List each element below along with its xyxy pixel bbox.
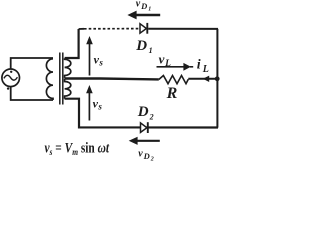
arrow vD1 (points left) <box>127 11 160 20</box>
wire: top rail dashed segment to D1 <box>79 28 84 30</box>
resistor R <box>159 76 189 84</box>
wire: top rail right of D1 <box>148 28 218 30</box>
transformer secondary lower coil <box>65 79 71 99</box>
wire: resistor to right rail <box>188 78 217 80</box>
transformer secondary upper coil <box>65 58 71 78</box>
arrow vL (points right) <box>157 63 194 71</box>
arrow vs lower (points up) <box>86 85 93 121</box>
current arrowhead iL on wire <box>203 76 209 82</box>
arrow vs upper (points up) <box>86 36 93 76</box>
arrow vD2 (points left) <box>129 137 160 145</box>
formula vs = Vm sin wt <box>45 139 110 157</box>
wire: primary loop bottom <box>11 87 53 100</box>
junction node dot <box>215 76 220 81</box>
transformer core <box>59 53 61 105</box>
wire: secondary top terminal to top rail <box>65 29 79 58</box>
ac source V <box>2 69 20 90</box>
wire: primary loop top <box>11 58 53 69</box>
wire: bottom rail <box>65 99 218 128</box>
wire: center tap to resistor <box>65 77 159 80</box>
diode D1 <box>140 23 147 34</box>
transformer primary coil <box>46 59 53 100</box>
wire: right rail <box>216 29 218 128</box>
diode D2 <box>141 122 148 133</box>
svg-text:R: R <box>166 85 178 102</box>
